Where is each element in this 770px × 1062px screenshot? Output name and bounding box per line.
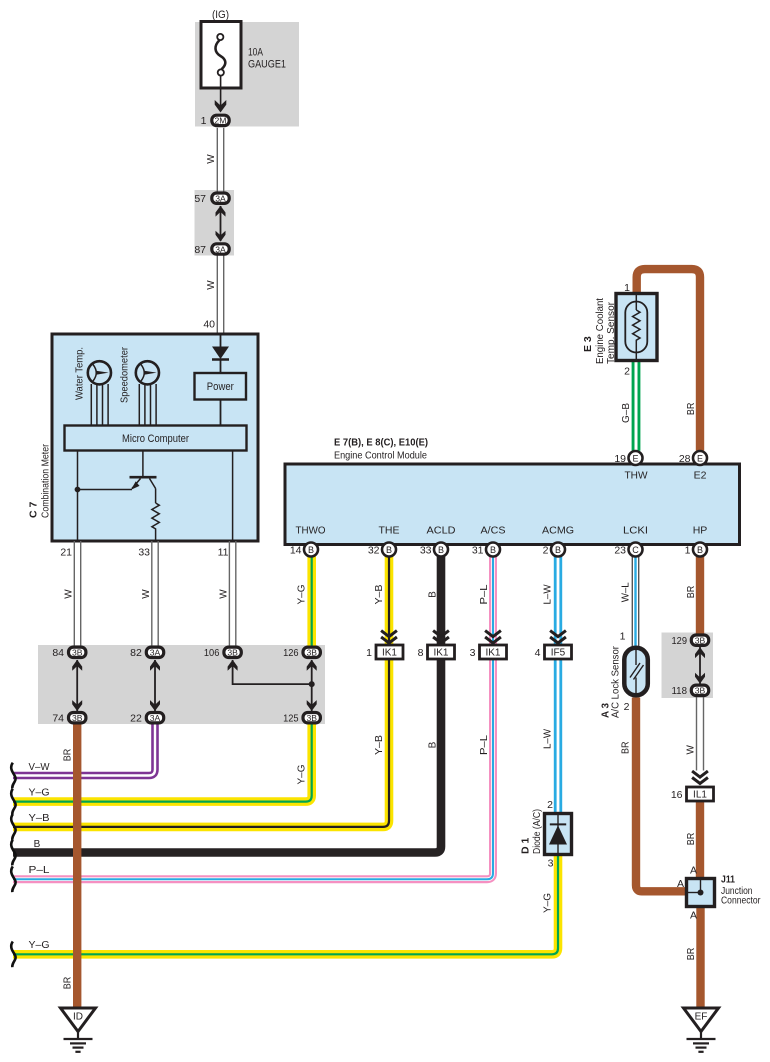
svg-text:B: B xyxy=(438,545,444,555)
svg-text:82: 82 xyxy=(130,647,142,659)
svg-text:3A: 3A xyxy=(150,648,161,658)
svg-text:ID: ID xyxy=(73,1012,83,1023)
connector IK1 pin 1 xyxy=(376,645,403,659)
wire Y-B from ECM pin 32 through IK1 to left edge xyxy=(13,557,389,827)
svg-text:GAUGE1: GAUGE1 xyxy=(248,59,286,71)
junction line 84-74 xyxy=(76,660,78,711)
svg-text:C 7: C 7 xyxy=(28,502,40,519)
svg-text:1: 1 xyxy=(620,631,626,643)
svg-text:23: 23 xyxy=(614,545,626,557)
svg-text:IK1: IK1 xyxy=(485,648,500,659)
wire BR sensor E3 pin1 loop to ECM pin 28 xyxy=(637,269,700,451)
wire W pin 21 to junction 84 xyxy=(74,541,80,646)
svg-text:8: 8 xyxy=(418,647,424,659)
svg-text:31: 31 xyxy=(472,545,484,557)
svg-text:33: 33 xyxy=(420,545,432,557)
svg-text:84: 84 xyxy=(52,647,64,659)
svg-text:A/CS: A/CS xyxy=(481,525,506,537)
svg-text:W: W xyxy=(206,280,217,290)
fuse 10A GAUGE1 xyxy=(201,22,241,89)
gray panel behind connectors 57/87 xyxy=(195,190,235,256)
svg-text:16: 16 xyxy=(671,789,683,801)
svg-text:THW: THW xyxy=(625,470,648,482)
svg-text:126: 126 xyxy=(283,647,299,659)
connector 125 3B xyxy=(303,713,320,723)
svg-text:2: 2 xyxy=(543,545,549,557)
svg-text:3A: 3A xyxy=(215,244,226,254)
svg-text:10A: 10A xyxy=(248,47,264,59)
svg-text:E: E xyxy=(632,453,638,463)
svg-text:129: 129 xyxy=(672,635,688,647)
resistor inside meter xyxy=(152,503,159,541)
svg-text:Combination Meter: Combination Meter xyxy=(40,444,52,518)
svg-text:E2: E2 xyxy=(694,470,707,482)
svg-text:Water Temp.: Water Temp. xyxy=(74,347,86,400)
connector IK1 pin 3 xyxy=(480,645,507,659)
svg-text:3: 3 xyxy=(470,647,476,659)
arrow up into 57 xyxy=(216,206,226,217)
ground ID xyxy=(61,1008,96,1052)
ECM pin 33 circle xyxy=(434,543,448,557)
arrow into connector 2M xyxy=(215,100,227,113)
svg-text:P–L: P–L xyxy=(479,584,490,604)
ECM pin 31 circle xyxy=(486,543,500,557)
svg-text:1: 1 xyxy=(685,545,691,557)
svg-text:3B: 3B xyxy=(227,648,238,658)
svg-text:87: 87 xyxy=(194,244,206,256)
connector 82 3A xyxy=(146,647,163,657)
svg-text:Y–G: Y–G xyxy=(29,940,50,951)
chevron arrows into IK1 pin 8 xyxy=(433,631,449,643)
wire Y-G from ECM pin 14 to junction 126 xyxy=(307,557,316,647)
svg-text:A: A xyxy=(677,878,684,890)
svg-text:B: B xyxy=(34,839,41,850)
svg-text:E: E xyxy=(697,453,703,463)
svg-text:G–B: G–B xyxy=(621,403,632,423)
svg-text:A: A xyxy=(690,865,697,877)
svg-text:J11: J11 xyxy=(721,874,735,886)
wire W pin 33 to junction 82 xyxy=(152,541,158,646)
connector 1 2M xyxy=(212,115,229,125)
wire BR J11 to ground EF xyxy=(696,906,704,1008)
svg-text:Y–G: Y–G xyxy=(296,584,307,604)
svg-text:11: 11 xyxy=(218,547,229,559)
svg-text:BR: BR xyxy=(686,586,697,599)
svg-text:B: B xyxy=(428,741,439,748)
svg-text:BR: BR xyxy=(63,977,74,990)
svg-text:14: 14 xyxy=(290,545,302,557)
svg-text:W: W xyxy=(219,589,230,599)
connector 87 3A xyxy=(212,244,229,254)
svg-text:3B: 3B xyxy=(306,648,317,658)
svg-text:B: B xyxy=(386,545,392,555)
svg-text:HP: HP xyxy=(693,525,708,537)
svg-text:B: B xyxy=(428,591,439,598)
svg-text:3A: 3A xyxy=(215,194,226,204)
svg-text:3B: 3B xyxy=(72,713,83,723)
wire B from ECM pin 33 through IK1 to left edge xyxy=(13,557,441,853)
svg-text:IK1: IK1 xyxy=(433,648,448,659)
svg-text:3B: 3B xyxy=(695,636,706,646)
micro computer box xyxy=(65,426,247,451)
svg-text:IL1: IL1 xyxy=(693,790,707,801)
chevron arrows into IK1 pin 3 xyxy=(485,631,501,643)
svg-text:B: B xyxy=(555,545,561,555)
break squiggle Y-B xyxy=(11,814,15,840)
break squiggle P-L xyxy=(11,866,15,892)
svg-text:Y–B: Y–B xyxy=(374,735,385,755)
svg-text:19: 19 xyxy=(614,453,626,465)
gray band behind connectors 84/82/106/126/74/22/125 xyxy=(38,645,325,724)
svg-text:C: C xyxy=(632,545,639,555)
svg-text:3B: 3B xyxy=(72,648,83,658)
connector 106 3B xyxy=(224,647,241,657)
svg-text:Engine Control Module: Engine Control Module xyxy=(334,450,427,462)
wire BR IL1 to J11 xyxy=(696,801,704,880)
wire G-B sensor E3 pin2 to ECM pin 19 xyxy=(632,361,641,451)
svg-text:EF: EF xyxy=(695,1012,708,1023)
svg-text:125: 125 xyxy=(283,713,299,725)
svg-text:E 3: E 3 xyxy=(582,336,594,352)
connector IL1 pin 16 xyxy=(687,787,714,801)
wire W pin 11 to junction 106 xyxy=(229,541,235,646)
combination meter C7 box xyxy=(52,334,258,541)
svg-text:B: B xyxy=(490,545,496,555)
junction line 82-22 xyxy=(154,660,156,711)
ground EF xyxy=(684,1008,719,1052)
svg-text:2: 2 xyxy=(624,701,630,713)
svg-text:1: 1 xyxy=(366,647,372,659)
junction connector J11 xyxy=(687,879,715,907)
svg-text:Y–G: Y–G xyxy=(296,764,307,784)
break squiggle Y-G xyxy=(11,789,15,815)
node dot at 126-125 line xyxy=(309,681,315,687)
svg-text:3B: 3B xyxy=(695,686,706,696)
svg-text:B: B xyxy=(308,545,314,555)
svg-text:32: 32 xyxy=(368,545,380,557)
svg-text:D 1: D 1 xyxy=(520,838,532,855)
junction line 106 branch to 126-125 line xyxy=(233,660,312,684)
ECM pin 23 circle xyxy=(629,543,643,557)
junction line 57-87 xyxy=(220,206,222,241)
gray panel behind fuse GAUGE1 xyxy=(195,22,299,127)
svg-text:40: 40 xyxy=(203,319,215,331)
connector 74 3B xyxy=(69,713,86,723)
svg-text:22: 22 xyxy=(130,713,142,725)
diode at pin 40 inside meter xyxy=(212,334,229,373)
break squiggle Y-G lower xyxy=(11,942,15,968)
svg-text:3A: 3A xyxy=(150,713,161,723)
transistor Q inside meter xyxy=(78,451,157,504)
svg-text:BR: BR xyxy=(686,403,697,416)
svg-text:W: W xyxy=(64,589,75,599)
svg-text:Connector: Connector xyxy=(721,895,761,907)
chevron arrows into IF5 pin 4 xyxy=(550,631,566,643)
svg-text:V–W: V–W xyxy=(29,762,51,773)
wire W junction 118 to IL1 xyxy=(697,697,704,771)
break squiggle V-W xyxy=(11,763,15,789)
svg-text:IK1: IK1 xyxy=(382,648,397,659)
wire fuse output xyxy=(220,76,222,110)
wire P-L from ECM pin 31 through IK1 to left edge xyxy=(13,557,493,880)
A/C lock sensor A3 capsule xyxy=(624,648,648,696)
svg-text:Y–G: Y–G xyxy=(542,893,553,913)
svg-text:LCKI: LCKI xyxy=(623,525,648,537)
svg-text:106: 106 xyxy=(204,647,220,659)
svg-text:L–W: L–W xyxy=(542,728,553,749)
wire BR junction 74 to ground ID xyxy=(73,724,81,1008)
svg-text:57: 57 xyxy=(194,193,206,205)
svg-text:Temp. Sensor: Temp. Sensor xyxy=(605,302,617,364)
ECM pin 1 circle xyxy=(693,543,707,557)
junction line 126-125 xyxy=(311,660,313,711)
wire BR ECM pin 1 to junction 129 xyxy=(696,557,704,635)
svg-text:33: 33 xyxy=(138,547,150,559)
svg-text:4: 4 xyxy=(535,647,541,659)
connector 57 3A xyxy=(212,193,229,203)
wire W-L from ECM pin 23 to A/C lock sensor xyxy=(632,557,638,648)
ECM pin 28 circle xyxy=(693,451,707,465)
connector 129 3B xyxy=(691,635,708,645)
svg-text:2: 2 xyxy=(624,366,630,378)
wire Y-G from junction 125 to left edge xyxy=(13,724,312,802)
wire W junction 87 to combination meter pin 40 xyxy=(217,256,223,334)
break squiggle B xyxy=(11,840,15,866)
svg-text:74: 74 xyxy=(52,713,64,725)
svg-text:Speedometer: Speedometer xyxy=(119,347,131,403)
svg-text:2M: 2M xyxy=(215,115,227,125)
wire W fuse to junction 57 xyxy=(217,128,223,192)
svg-text:Y–B: Y–B xyxy=(29,813,50,824)
diode D1 box xyxy=(545,814,572,855)
svg-text:B: B xyxy=(697,545,703,555)
svg-text:Power: Power xyxy=(207,381,234,393)
svg-text:ACLD: ACLD xyxy=(427,525,456,537)
svg-text:THWO: THWO xyxy=(296,525,326,537)
wire V-W from junction 22 to left edge xyxy=(13,724,155,776)
svg-text:ACMG: ACMG xyxy=(542,525,574,537)
power box xyxy=(195,373,247,400)
svg-text:3: 3 xyxy=(548,858,554,870)
svg-text:Y–G: Y–G xyxy=(29,788,50,799)
svg-text:BR: BR xyxy=(621,741,632,754)
svg-text:1: 1 xyxy=(624,282,630,294)
wire Y-G from diode D1 to left edge xyxy=(13,855,558,955)
svg-text:THE: THE xyxy=(379,525,400,537)
chevron arrows into IK1 pin 1 xyxy=(381,631,397,643)
wire L-W from ECM pin 2 through IF5 to diode D1 xyxy=(554,557,562,815)
svg-text:A: A xyxy=(690,910,697,922)
svg-text:P–L: P–L xyxy=(29,865,51,876)
ECM pin 32 circle xyxy=(382,543,396,557)
svg-text:Micro Computer: Micro Computer xyxy=(122,433,189,445)
ECM pin 19 circle xyxy=(629,451,643,465)
svg-text:W: W xyxy=(206,154,217,164)
connector 22 3A xyxy=(146,713,163,723)
water temp gauge xyxy=(88,361,111,425)
svg-text:P–L: P–L xyxy=(479,735,490,755)
svg-text:IF5: IF5 xyxy=(551,648,566,659)
arrow down into 87 xyxy=(216,231,226,242)
chevron arrows into IL1 pin 16 xyxy=(692,771,708,783)
svg-text:21: 21 xyxy=(60,547,72,559)
svg-text:A/C Lock Sensor: A/C Lock Sensor xyxy=(610,646,622,718)
wire BR A/C lock sensor to junction connector J11 xyxy=(636,698,687,892)
node junction dot on pin 21 line xyxy=(75,487,81,493)
connector IK1 pin 8 xyxy=(428,645,455,659)
svg-text:3B: 3B xyxy=(306,713,317,723)
svg-text:2: 2 xyxy=(547,799,553,811)
svg-text:L–W: L–W xyxy=(542,584,553,605)
svg-text:118: 118 xyxy=(672,685,688,697)
svg-text:W: W xyxy=(685,745,696,755)
connector IF5 pin 4 xyxy=(545,645,572,659)
svg-text:W–L: W–L xyxy=(621,582,632,602)
svg-text:Y–B: Y–B xyxy=(374,584,385,604)
junction line 129-118 xyxy=(699,647,701,684)
wire micro computer to pin 21 xyxy=(77,451,79,542)
ECM pin 14 circle xyxy=(304,543,318,557)
svg-text:BR: BR xyxy=(686,833,697,846)
speedometer gauge xyxy=(136,361,159,425)
wire power to micro computer xyxy=(220,400,222,426)
svg-text:1: 1 xyxy=(201,115,207,127)
svg-text:BR: BR xyxy=(686,948,697,961)
connector 118 3B xyxy=(691,685,708,695)
svg-text:W: W xyxy=(141,589,152,599)
svg-text:(IG): (IG) xyxy=(212,9,229,21)
svg-text:E 7(B), E 8(C), E10(E): E 7(B), E 8(C), E10(E) xyxy=(334,437,428,449)
engine coolant temp sensor E3 box xyxy=(616,294,657,361)
svg-text:Diode (A/C): Diode (A/C) xyxy=(531,809,543,854)
gray panel behind connectors 129/118 xyxy=(662,633,714,699)
wire micro computer to pin 11 xyxy=(232,451,234,542)
svg-text:28: 28 xyxy=(679,453,691,465)
svg-text:BR: BR xyxy=(63,749,74,762)
connector 84 3B xyxy=(69,647,86,657)
ECM pin 2 circle xyxy=(551,543,565,557)
engine control module box xyxy=(285,464,740,545)
connector 126 3B xyxy=(303,647,320,657)
